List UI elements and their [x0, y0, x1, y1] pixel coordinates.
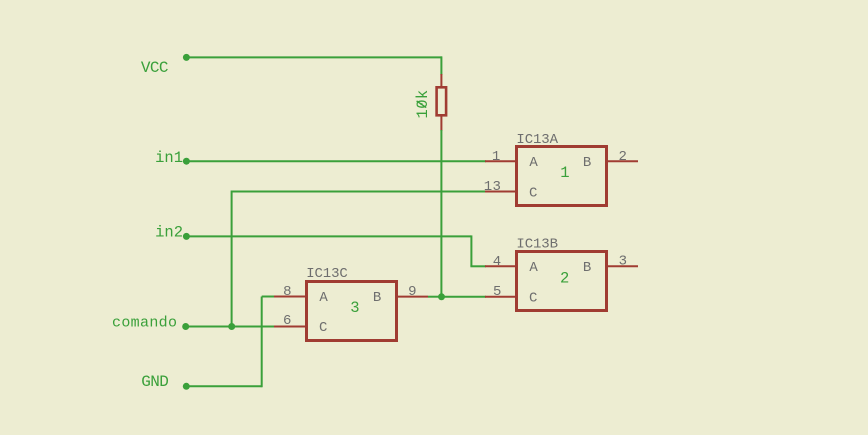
pin 2 stub [607, 160, 638, 162]
pin 9 stub [397, 296, 428, 298]
svg-text:5: 5 [493, 284, 502, 300]
pin 13 stub [485, 191, 516, 193]
wire in1 to pin 1 [186, 160, 486, 162]
wire in2 to pin 4 [470, 265, 486, 267]
svg-text:C: C [529, 291, 537, 307]
svg-text:GND: GND [141, 373, 168, 391]
svg-text:A: A [529, 260, 538, 276]
gate IC13A box [517, 147, 607, 206]
resistor 10k [437, 74, 447, 131]
wire comando to pin 13 [232, 191, 486, 193]
net label in1 [155, 149, 190, 167]
svg-text:1: 1 [560, 164, 569, 182]
svg-text:2: 2 [560, 270, 569, 288]
svg-text:C: C [529, 185, 537, 201]
pin 5 stub [485, 296, 516, 298]
svg-text:3: 3 [619, 254, 628, 270]
gate IC13C box [307, 282, 397, 341]
svg-text:10k: 10k [414, 89, 432, 118]
wire pin 9 to junction [428, 296, 442, 298]
junction comando [228, 323, 235, 330]
wire comando vertical up [231, 191, 233, 327]
svg-text:2: 2 [619, 149, 628, 165]
net label in2 [155, 224, 190, 242]
svg-text:in1: in1 [155, 149, 183, 167]
svg-text:in2: in2 [155, 224, 183, 242]
wire resistor to junction (vertical) [440, 130, 442, 298]
svg-text:IC13C: IC13C [306, 266, 348, 282]
svg-text:A: A [529, 155, 538, 171]
svg-text:B: B [583, 260, 591, 276]
svg-text:C: C [319, 320, 327, 336]
wire comando to pin 6 [186, 326, 274, 328]
gate IC13B box [517, 252, 607, 311]
svg-text:IC13B: IC13B [516, 236, 558, 252]
svg-text:8: 8 [283, 284, 292, 300]
wire GND horizontal [186, 385, 262, 387]
svg-text:B: B [373, 290, 381, 306]
pin 1 stub [485, 160, 516, 162]
svg-text:1: 1 [492, 149, 501, 165]
svg-text:9: 9 [408, 284, 417, 300]
net label VCC [141, 54, 190, 77]
net label GND [141, 373, 190, 391]
wire GND to pin 8 [262, 296, 274, 298]
wire VCC vertical down to resistor [440, 56, 442, 75]
svg-text:IC13A: IC13A [516, 132, 558, 148]
pin 8 stub [274, 296, 307, 298]
junction node [438, 293, 445, 300]
svg-text:6: 6 [283, 313, 292, 329]
pin 4 stub [485, 265, 516, 267]
wire in2 vertical [470, 235, 472, 266]
svg-text:comando: comando [112, 314, 177, 331]
pin 6 stub [274, 326, 307, 328]
wire VCC horizontal [186, 56, 442, 58]
wire junction to pin 5 [441, 296, 486, 298]
svg-text:A: A [319, 290, 328, 306]
value label 10k [414, 89, 432, 118]
wire in2 horizontal [186, 235, 471, 237]
net label comando [112, 314, 189, 331]
svg-text:B: B [583, 155, 591, 171]
svg-text:3: 3 [350, 299, 359, 317]
pin 3 stub [607, 265, 638, 267]
svg-text:4: 4 [493, 254, 502, 270]
svg-text:VCC: VCC [141, 59, 168, 77]
wire GND vertical up [261, 297, 263, 388]
svg-text:13: 13 [484, 179, 501, 195]
